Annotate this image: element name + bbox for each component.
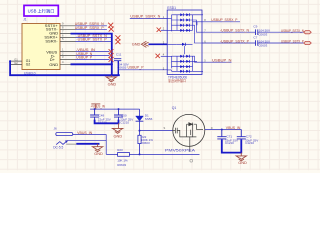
port USBUP_SSTX_P	[304, 41, 312, 44]
svg-text:C0603: C0603	[258, 33, 267, 37]
J1 pin names	[26, 23, 58, 67]
channel row lines	[172, 15, 204, 31]
junction	[111, 63, 113, 65]
svg-text:-USBUP_SSTX_P: -USBUP_SSTX_P	[76, 38, 107, 42]
capacitor C71	[217, 130, 226, 139]
resistor R22	[139, 131, 141, 155]
ground symbol bus	[110, 75, 112, 77]
svg-text:R0603: R0603	[117, 163, 126, 167]
DC jack center pin	[56, 133, 73, 136]
svg-text:USBUP_P: USBUP_P	[128, 66, 145, 70]
left pin feeds	[167, 15, 176, 72]
svg-text:靠近对外接口: 靠近对外接口	[168, 78, 186, 83]
wire C9 to port	[258, 31, 304, 33]
svg-text:G2: G2	[14, 61, 18, 65]
wire D+ net	[76, 58, 110, 60]
svg-text:GND: GND	[49, 62, 58, 67]
svg-text:C7: C7	[253, 36, 257, 40]
ESD pin numbers	[163, 15, 207, 71]
svg-text:VBUS_IN: VBUS_IN	[226, 126, 241, 130]
svg-text:+VBUS_IN: +VBUS_IN	[91, 105, 106, 109]
wire jack sleeve to gnd thick	[76, 143, 99, 145]
svg-text:SSRX-: SSRX-	[45, 38, 58, 43]
svg-text:C1210: C1210	[120, 120, 129, 124]
svg-text:USBUP_SSRX_N: USBUP_SSRX_N	[130, 15, 161, 19]
ground symbol C71 C72	[240, 153, 242, 156]
junction node VBUS to FET	[139, 130, 141, 132]
svg-text:USBUP_SSTX_P: USBUP_SSTX_P	[281, 40, 304, 44]
wire VBUS net	[76, 51, 110, 53]
J1 pin stubs right	[10, 26, 75, 65]
wire ESD right pin1	[202, 21, 240, 23]
svg-text:GND: GND	[114, 133, 123, 138]
svg-text:-USBUP_SSTX_P: -USBUP_SSTX_P	[220, 39, 250, 43]
svg-text:G2: G2	[26, 63, 31, 67]
svg-text:-USBUP_SSTX_N: -USBUP_SSTX_N	[220, 29, 250, 33]
junction R22 R23	[139, 153, 141, 155]
wire jack switch pin	[67, 140, 106, 142]
wire Q1 drain to VBUS_IN	[205, 129, 242, 131]
no-ERC cross ESD pin2	[157, 28, 161, 32]
ground symbol jack	[97, 144, 99, 147]
junction	[94, 108, 96, 110]
junction	[9, 60, 11, 62]
right side internal bends	[193, 20, 203, 62]
svg-text:PMV50XPEA: PMV50XPEA	[165, 148, 196, 152]
svg-text:R0603: R0603	[141, 141, 150, 145]
svg-text:USBUP_SSRX_P: USBUP_SSRX_P	[75, 26, 105, 30]
svg-text:C9: C9	[253, 25, 257, 29]
svg-text:USB 上行端口: USB 上行端口	[28, 8, 55, 14]
wire D1 to Q1 source	[140, 130, 173, 132]
wire SSRX- net	[76, 40, 112, 42]
clamp diode	[182, 43, 185, 46]
svg-text:USBUP_SSRX_P: USBUP_SSRX_P	[211, 18, 238, 22]
svg-text:GND: GND	[132, 41, 141, 46]
wire GND pin3 thick	[71, 34, 112, 76]
power port VBUS_IN bar	[91, 104, 100, 109]
wire D- net	[76, 55, 110, 57]
no-ERC cross	[108, 23, 114, 32]
svg-text:S: S	[164, 126, 166, 130]
diode D1	[139, 109, 141, 116]
title box USB upstream port	[24, 5, 58, 16]
connector J1 body	[22, 24, 60, 70]
svg-text:R23: R23	[117, 148, 123, 152]
svg-text:SS56: SS56	[145, 117, 153, 121]
DC jack sleeve	[56, 141, 67, 145]
inner rails	[177, 15, 193, 72]
transistor Q1 body	[173, 114, 205, 146]
capacitor C72	[237, 130, 246, 139]
svg-text:J1: J1	[23, 18, 27, 22]
svg-text:DC-5.5: DC-5.5	[53, 145, 63, 149]
svg-text:G1: G1	[14, 58, 18, 62]
wire gate net	[140, 153, 200, 155]
svg-text:GND: GND	[238, 160, 247, 165]
capacitor C11 lead to bus	[117, 61, 119, 75]
wire SSTX+ net	[76, 25, 107, 27]
no-ERC cross	[115, 35, 120, 44]
wire to ESD pin1	[130, 17, 167, 19]
svg-text:VBUS_IN: VBUS_IN	[77, 131, 93, 135]
svg-text:Q1: Q1	[172, 106, 177, 110]
ESD internal diodes	[167, 15, 203, 72]
svg-text:ESD1: ESD1	[167, 6, 176, 10]
svg-text:C0603: C0603	[117, 65, 126, 69]
wire C7 to port	[258, 42, 304, 44]
wire USBUP_P to ESD pin5	[118, 69, 167, 71]
wire ESD right to C7	[202, 42, 255, 44]
svg-text:C1210: C1210	[225, 141, 234, 145]
J1 pin numbers	[14, 22, 64, 65]
svg-text:USBUP_N: USBUP_N	[212, 59, 232, 63]
wire cap bottoms thick U	[95, 120, 119, 124]
junction	[221, 129, 223, 131]
wire cap bottoms thick U	[222, 139, 242, 152]
wire ESD right to C9	[202, 31, 255, 33]
wire GND pin4 thick	[71, 63, 112, 65]
stray circle marker	[190, 159, 193, 162]
ground symbol C49 C50	[118, 123, 120, 128]
no-ERC cross ESD pin4	[156, 54, 160, 58]
svg-text:USBUP_P: USBUP_P	[76, 56, 93, 60]
no-ERC cross	[109, 49, 114, 62]
ESD1 box	[167, 10, 202, 75]
Q1 internal symbol	[173, 123, 203, 152]
wire VBUS rail	[90, 108, 139, 110]
svg-text:USBUP_SSTX_N: USBUP_SSTX_N	[281, 29, 304, 33]
svg-text:GND: GND	[108, 82, 117, 87]
svg-text:C1210: C1210	[245, 141, 254, 145]
svg-text:GND: GND	[94, 151, 103, 156]
svg-text:C0603: C0603	[258, 43, 267, 47]
wire ESD right pin USBUP_N	[202, 61, 232, 63]
wire VBUS_IN from jack	[73, 135, 106, 155]
bottom group diode pairs	[180, 55, 189, 73]
capacitor C50	[114, 109, 123, 120]
wire SSTX- net	[76, 29, 107, 31]
jack sleeve pin stub	[66, 143, 76, 145]
J1 pin stubs left G1 G2	[10, 61, 22, 64]
capacitor C49	[90, 109, 99, 120]
wire SSRX+ net	[76, 37, 112, 39]
top group diode pairs	[180, 13, 189, 32]
svg-text:C11: C11	[116, 53, 122, 57]
wire ground bus thick	[10, 61, 120, 75]
port USBUP_SSTX_N	[304, 31, 312, 34]
svg-text:J6: J6	[54, 127, 58, 131]
svg-text:10K 1%: 10K 1%	[117, 158, 128, 162]
